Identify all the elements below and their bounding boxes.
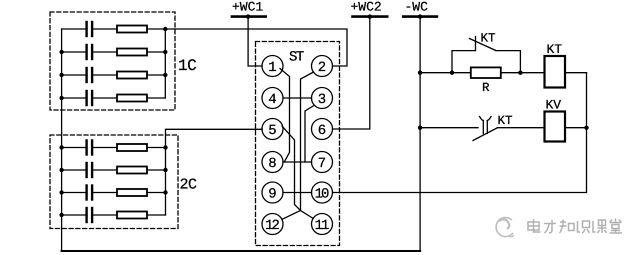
wire 1C row 3 right segment <box>147 74 165 76</box>
svg-text:7: 7 <box>318 156 326 172</box>
svg-text:KT: KT <box>498 114 514 128</box>
contact KT (time-delay closing, in KV branch) <box>482 121 484 134</box>
svg-text:+WC1: +WC1 <box>232 0 263 15</box>
resistor 1C row 1 <box>117 26 147 33</box>
junction dots 1C right bus <box>163 27 167 31</box>
capacitor 2C row 2 <box>85 163 87 177</box>
ST terminal 3 <box>312 88 333 109</box>
wire 2C right bus rising to ST terminal 5 <box>166 129 263 215</box>
wire 2C row 4 right segment <box>147 214 166 216</box>
svg-text:ST: ST <box>289 50 304 66</box>
wire 1C row 4 left segment <box>62 97 86 99</box>
ST terminal 6 <box>312 119 333 140</box>
wire 1C row 1 left segment <box>62 28 86 30</box>
capacitor 2C row 3 <box>85 186 87 200</box>
svg-text:8: 8 <box>268 156 276 172</box>
svg-text:3: 3 <box>318 92 326 108</box>
wire 1C right bus <box>164 29 166 98</box>
svg-text:KT: KT <box>481 32 497 46</box>
relay coil KV <box>545 112 566 142</box>
capacitor 2C row 1 <box>85 141 87 155</box>
svg-text:5: 5 <box>268 123 276 139</box>
svg-text:R: R <box>482 81 490 95</box>
wire ST terminal 10 to relay rail <box>333 73 587 193</box>
relay coil KT <box>545 56 566 88</box>
wire 2C row 3 right segment <box>147 192 166 194</box>
svg-text:1: 1 <box>268 60 276 76</box>
svg-text:2C: 2C <box>180 177 198 194</box>
contact KT (normally-open, shunting R) <box>452 51 475 73</box>
wire 1C bank to ST terminal 2 <box>165 29 347 66</box>
wire ST link 4 to 3 <box>283 97 312 99</box>
wire 2C row 4 left segment <box>62 214 86 216</box>
junction dot -WC / timer row <box>418 71 422 75</box>
wire KV coil to rail <box>565 127 587 129</box>
ST terminal 2 <box>312 56 333 77</box>
resistor 1C row 4 <box>117 95 147 102</box>
capacitor 1C row 2 <box>85 45 87 59</box>
capacitor bank 1C dashed enclosure <box>50 12 175 110</box>
wire 1C row 3 middle segment <box>93 74 117 76</box>
wire 2C row 3 middle segment <box>93 192 117 194</box>
wire -WC to delayed contact <box>420 127 478 129</box>
capacitor 1C row 4 <box>85 91 87 105</box>
wire 1C row 1 middle segment <box>93 28 117 30</box>
wire +WC1 to ST terminal 1 <box>248 17 262 66</box>
capacitor 1C row 1 <box>85 22 87 36</box>
ST terminal 12 <box>262 214 283 235</box>
svg-text:9: 9 <box>268 187 276 203</box>
wire delayed contact to KV coil <box>498 127 545 129</box>
svg-text:KT: KT <box>547 42 563 57</box>
junction dots 2C right bus <box>163 145 167 149</box>
svg-text:2: 2 <box>318 60 326 76</box>
wire 1C row 4 right segment <box>147 97 165 99</box>
wire 2C row 2 middle segment <box>93 169 117 171</box>
wire 2C row 2 right segment <box>147 169 166 171</box>
wire 2C row 1 right segment <box>147 147 166 149</box>
wire KT coil to rail <box>565 72 587 74</box>
resistor 2C row 2 <box>117 167 147 174</box>
wire ST link 8 to 7 <box>283 161 312 163</box>
resistor 2C row 1 <box>117 144 147 151</box>
terminal block ST dashed enclosure <box>256 42 340 246</box>
svg-text:KV: KV <box>546 98 562 113</box>
wire 1C row 1 right segment <box>147 28 165 30</box>
wire -WC to R network <box>420 72 471 74</box>
junction dots 2C left bus <box>59 145 63 149</box>
capacitor 2C row 4 <box>85 208 87 222</box>
junction dot -WC / KV row <box>418 126 422 130</box>
wire 1C left bus (continues down to 2C and bottom return) <box>61 29 63 251</box>
resistor 2C row 4 <box>117 212 147 219</box>
wire ST link 9 to 10 <box>283 192 312 194</box>
wire bottom return (2C bus to -WC bus) <box>62 250 421 252</box>
junction node right of R <box>518 71 522 75</box>
ST terminal 9 <box>262 182 283 203</box>
resistor 1C row 2 <box>117 49 147 56</box>
svg-text:1C: 1C <box>178 57 196 75</box>
wire 2C row 3 left segment <box>62 192 86 194</box>
wire ST internal link 1 to 8 <box>280 69 290 162</box>
wire ST internal link 3 to row 8-7 <box>305 106 314 163</box>
wire R to KT coil <box>501 72 545 74</box>
watermark logo <box>496 218 514 237</box>
svg-text:11: 11 <box>315 218 329 234</box>
ST terminal 11 <box>312 214 333 235</box>
resistor R <box>471 67 501 78</box>
wire 1C row 2 middle segment <box>93 51 117 53</box>
svg-text:-WC: -WC <box>405 0 429 15</box>
wire ST internal link 2 to 12 <box>282 72 314 219</box>
watermark text 电力知识课堂 (drawn strokes) <box>528 219 622 234</box>
junction dot KV / rail <box>584 126 588 130</box>
svg-text:+WC2: +WC2 <box>351 0 382 15</box>
svg-text:4: 4 <box>268 92 276 108</box>
ST terminal 5 <box>262 119 283 140</box>
capacitor bank 2C dashed enclosure <box>50 135 178 229</box>
wire -WC vertical bus <box>419 17 421 251</box>
capacitor 1C row 3 <box>85 68 87 82</box>
wire ST internal link 5 to 11 <box>282 126 313 218</box>
resistor 1C row 3 <box>117 72 147 79</box>
wire 2C row 4 middle segment <box>93 214 117 216</box>
wire 2C row 1 left segment <box>62 147 86 149</box>
wire 2C row 1 middle segment <box>93 147 117 149</box>
svg-text:10: 10 <box>315 187 329 203</box>
wire 1C row 3 left segment <box>62 74 86 76</box>
ST terminal 4 <box>262 88 283 109</box>
resistor 2C row 3 <box>117 189 147 196</box>
ST terminal 8 <box>262 152 283 173</box>
svg-text:12: 12 <box>265 218 279 234</box>
wire +WC2 to ST terminal 6 <box>333 17 370 129</box>
junction node left of R <box>450 71 454 75</box>
ST terminal 10 <box>312 182 333 203</box>
ST terminal 1 <box>262 56 283 77</box>
svg-text:6: 6 <box>318 123 326 139</box>
wire 1C row 2 right segment <box>147 51 165 53</box>
junction dots 1C left bus <box>59 50 63 54</box>
wire 2C row 2 left segment <box>62 169 86 171</box>
wire 1C row 2 left segment <box>62 51 86 53</box>
ST terminal 7 <box>312 152 333 173</box>
wire 1C row 4 middle segment <box>93 97 117 99</box>
